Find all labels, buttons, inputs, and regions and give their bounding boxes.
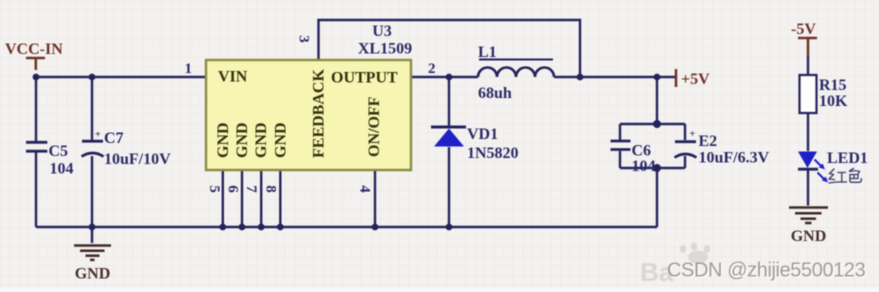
svg-text:68uh: 68uh <box>478 85 512 102</box>
svg-text:7: 7 <box>243 185 259 193</box>
svg-text:+: + <box>95 130 101 141</box>
svg-text:10uF/10V: 10uF/10V <box>104 151 171 168</box>
svg-text:XL1509: XL1509 <box>358 41 412 58</box>
svg-text:6: 6 <box>224 185 240 193</box>
svg-text:GND: GND <box>253 122 270 158</box>
svg-text:C6: C6 <box>632 143 652 160</box>
svg-text:+5V: +5V <box>681 71 710 88</box>
svg-text:GND: GND <box>75 266 111 283</box>
svg-text:L1: L1 <box>478 44 497 61</box>
svg-text:4: 4 <box>357 185 373 193</box>
svg-text:-5V: -5V <box>791 21 816 38</box>
svg-text:2: 2 <box>428 61 436 77</box>
svg-text:GND: GND <box>791 228 827 245</box>
svg-text:VCC-IN: VCC-IN <box>5 41 63 58</box>
svg-text:ON/OFF: ON/OFF <box>366 96 383 157</box>
svg-text:U3: U3 <box>372 23 392 40</box>
svg-text:10uF/6.3V: 10uF/6.3V <box>699 150 770 167</box>
svg-text:C5: C5 <box>49 143 69 160</box>
svg-text:1: 1 <box>185 61 193 77</box>
svg-text:OUTPUT: OUTPUT <box>331 70 398 87</box>
svg-text:CSDN @zhijie5500123: CSDN @zhijie5500123 <box>667 259 866 281</box>
svg-text:C7: C7 <box>104 130 124 147</box>
svg-text:VD1: VD1 <box>467 126 498 143</box>
svg-text:1N5820: 1N5820 <box>467 145 519 162</box>
svg-text:GND: GND <box>272 122 289 158</box>
svg-text:R15: R15 <box>819 77 847 94</box>
svg-text:GND: GND <box>234 122 251 158</box>
svg-text:LED1: LED1 <box>827 150 868 167</box>
svg-text:3: 3 <box>296 35 312 43</box>
svg-text:8: 8 <box>263 185 279 193</box>
svg-text:10K: 10K <box>819 93 848 110</box>
svg-text:104: 104 <box>632 158 656 175</box>
svg-text:104: 104 <box>50 161 74 178</box>
svg-text:FEEDBACK: FEEDBACK <box>311 69 328 158</box>
svg-text:E2: E2 <box>699 133 718 150</box>
svg-text:+: + <box>690 129 696 140</box>
svg-text:5: 5 <box>206 185 222 193</box>
svg-text:VIN: VIN <box>218 69 248 86</box>
svg-text:GND: GND <box>215 122 232 158</box>
